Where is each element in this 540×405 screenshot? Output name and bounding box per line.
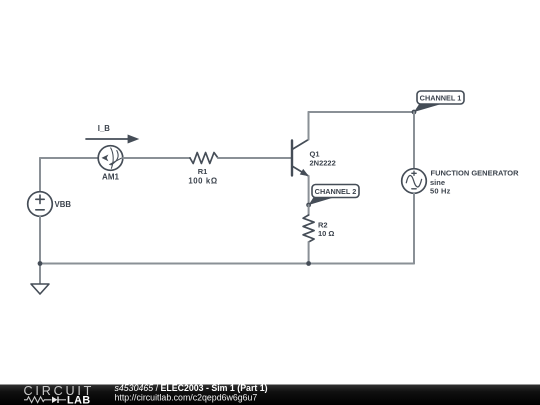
node junction channel1 bbox=[412, 110, 417, 115]
wire ammeter to R1 bbox=[123, 157, 190, 159]
wire function generator to bottom bbox=[413, 193, 415, 264]
svg-text:CHANNEL 2: CHANNEL 2 bbox=[315, 187, 357, 196]
wire VBB top to node A bbox=[39, 158, 41, 192]
svg-text:LAB: LAB bbox=[67, 395, 91, 405]
logo resistor zigzag bbox=[24, 397, 52, 403]
transistor Q1 bbox=[292, 140, 309, 177]
node junction bottom left bbox=[38, 261, 43, 266]
wire R1 to Q1 base bbox=[218, 157, 291, 159]
logo diode bbox=[52, 397, 58, 404]
svg-text:CHANNEL 1: CHANNEL 1 bbox=[420, 93, 462, 102]
voltage source VBB bbox=[28, 192, 53, 217]
wire top horizontal bbox=[309, 111, 415, 113]
ammeter AM1 bbox=[98, 146, 123, 171]
ground bbox=[31, 284, 49, 294]
footer bar bbox=[0, 385, 540, 405]
node junction R2 bottom bbox=[306, 261, 311, 266]
wire bottom horizontal bbox=[40, 263, 414, 265]
wire channel2 node to R2 bbox=[308, 205, 310, 215]
svg-text:s4530465 / ELEC2003 - Sim 1 (P: s4530465 / ELEC2003 - Sim 1 (Part 1) bbox=[115, 383, 268, 393]
wire to function generator bbox=[413, 112, 415, 169]
svg-text:R1: R1 bbox=[198, 167, 208, 176]
wire emitter down bbox=[308, 176, 310, 205]
svg-text:50 Hz: 50 Hz bbox=[430, 187, 451, 196]
wire VBB bottom to ground bbox=[39, 216, 41, 284]
flag CHANNEL 1 bbox=[414, 91, 464, 112]
svg-text:R2: R2 bbox=[318, 221, 328, 230]
svg-text:AM1: AM1 bbox=[102, 172, 119, 181]
svg-text:http://circuitlab.com/c2qepd6w: http://circuitlab.com/c2qepd6w6g6u7 bbox=[115, 393, 258, 403]
svg-text:I_B: I_B bbox=[98, 124, 111, 133]
svg-text:Q1: Q1 bbox=[310, 150, 320, 159]
resistor R2 bbox=[303, 215, 314, 242]
svg-text:FUNCTION GENERATOR: FUNCTION GENERATOR bbox=[431, 168, 520, 177]
wire node A to ammeter bbox=[40, 157, 98, 159]
svg-text:100 kΩ: 100 kΩ bbox=[188, 177, 217, 186]
svg-text:VBB: VBB bbox=[55, 200, 72, 209]
wire R2 to bottom bbox=[308, 242, 310, 264]
function generator V1 bbox=[402, 169, 427, 194]
resistor R1 bbox=[190, 153, 218, 164]
node junction channel2 bbox=[306, 203, 311, 208]
current arrow I_B bbox=[86, 135, 139, 144]
wire collector up bbox=[308, 112, 310, 140]
svg-text:2N2222: 2N2222 bbox=[310, 158, 336, 167]
flag CHANNEL 2 bbox=[309, 185, 359, 206]
svg-text:10 Ω: 10 Ω bbox=[318, 229, 334, 238]
